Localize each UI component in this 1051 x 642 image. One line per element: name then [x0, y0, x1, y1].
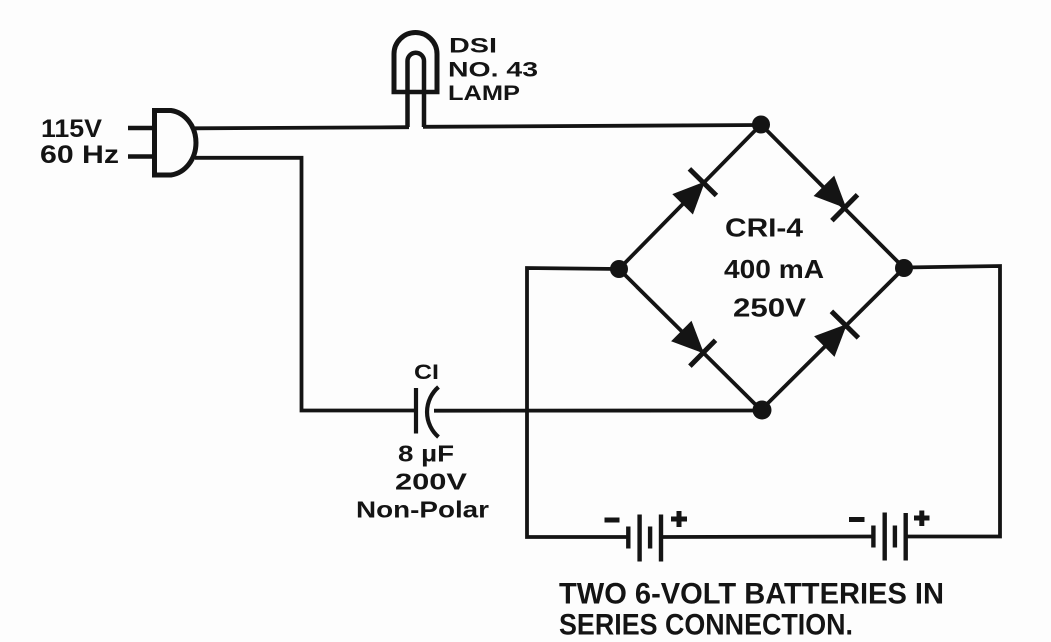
svg-text:8 µF: 8 µF: [398, 441, 454, 467]
battery BT1 plus sign: [671, 511, 687, 527]
wire: left node to bottom rail: [527, 268, 628, 537]
svg-text:115V: 115V: [41, 115, 102, 143]
node left: [610, 260, 628, 278]
capacitor C1 left plate: [414, 388, 418, 434]
svg-text:CRI-4: CRI-4: [725, 213, 804, 243]
diode CR1 top-left: [672, 169, 716, 215]
wire: capacitor to bridge bottom node: [434, 409, 761, 413]
battery BT1 minus sign: [605, 518, 620, 523]
capacitor C1 right plate: [427, 387, 438, 437]
plug P1 body: [155, 111, 196, 176]
svg-text:400 mA: 400 mA: [724, 254, 824, 284]
lamp DS1 base flange: [392, 90, 440, 95]
plug P1 prong top: [128, 126, 155, 130]
node bottom: [753, 401, 772, 420]
diode CR2 top-right: [814, 176, 858, 221]
svg-text:DSI: DSI: [449, 34, 497, 57]
battery BT2 plus sign: [914, 511, 930, 527]
lamp DS1 envelope: [394, 33, 437, 93]
svg-text:LAMP: LAMP: [448, 82, 520, 105]
svg-text:SERIES CONNECTION.: SERIES CONNECTION.: [559, 609, 853, 642]
node top: [752, 116, 770, 134]
lamp DS1 filament loop and leads: [408, 53, 425, 127]
wire: battery BT2 to right node: [904, 266, 1000, 537]
diode CR3 bottom-left: [671, 321, 715, 366]
wire bridge side: bottom node to right node: [761, 268, 904, 410]
svg-text:NO. 43: NO. 43: [448, 59, 538, 82]
svg-text:TWO 6-VOLT BATTERIES IN: TWO 6-VOLT BATTERIES IN: [559, 578, 944, 611]
battery BT2 minus sign: [849, 517, 865, 522]
wire bridge side: left node to bottom node: [619, 269, 761, 410]
wire: lamp right lead to bridge top node: [423, 125, 761, 127]
wire: plug lower to capacitor: [195, 158, 416, 411]
node right: [895, 259, 913, 277]
battery BT1: [628, 515, 661, 562]
battery BT2: [873, 513, 905, 561]
svg-text:CI: CI: [414, 361, 439, 384]
diode CR4 bottom-right: [814, 311, 858, 357]
svg-text:Non-Polar: Non-Polar: [356, 497, 489, 523]
svg-text:250V: 250V: [733, 293, 807, 323]
wire: plug to lamp left lead: [195, 127, 409, 128]
plug P1 prong bottom: [128, 154, 155, 158]
svg-text:60 Hz: 60 Hz: [40, 141, 119, 169]
wire bridge side: top node to right node: [761, 125, 904, 269]
wire: battery BT1 to battery BT2: [661, 535, 873, 539]
wire bridge side: left node to top node: [619, 125, 761, 270]
svg-text:200V: 200V: [395, 469, 468, 495]
